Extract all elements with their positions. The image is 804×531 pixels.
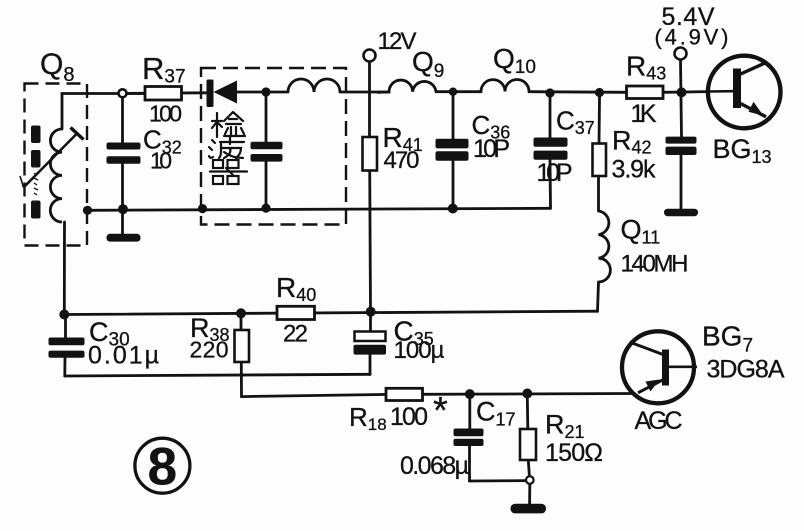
Q8 ferrite core bars bbox=[31, 126, 41, 219]
wire detector cap branch x=266 bbox=[265, 97, 268, 142]
wire R38 leads bbox=[240, 317, 243, 330]
transistor BG7 bbox=[622, 331, 697, 403]
node C30 top bbox=[59, 310, 69, 320]
node C35 top bbox=[366, 307, 376, 317]
ground under C32 bbox=[107, 234, 141, 242]
node gnd-bus dots bbox=[83, 206, 92, 215]
diode (detector) bbox=[207, 80, 238, 108]
capacitor at BG13 base bbox=[666, 137, 697, 155]
svg-text:*: * bbox=[433, 390, 448, 432]
node R38 top bbox=[236, 308, 246, 318]
resistor R40 bbox=[277, 306, 315, 319]
node C37 top bbox=[545, 88, 554, 97]
wire R18/AGC line y=394 bbox=[242, 394, 388, 396]
wire AGC bus y=313 bbox=[64, 311, 597, 314]
wire ground bus y=208.5 bbox=[88, 208, 551, 210]
svg-text:10P: 10P bbox=[537, 159, 573, 187]
svg-text:(4.9V): (4.9V) bbox=[655, 25, 729, 50]
node 5.4V junction bbox=[677, 87, 687, 97]
label 波 (hand-drawn) bbox=[209, 137, 244, 158]
transistor BG13 bbox=[708, 56, 781, 129]
svg-text:22: 22 bbox=[283, 321, 308, 348]
wire C37 branch x=550 bbox=[549, 98, 552, 138]
svg-text:12V: 12V bbox=[378, 28, 417, 55]
capacitor C36 bbox=[436, 139, 469, 161]
wire C36 branch x=453 bbox=[452, 96, 455, 139]
coil Q10 bbox=[481, 80, 529, 92]
Q8 core fine marks bbox=[34, 173, 38, 195]
wire C17 leads bbox=[468, 397, 471, 429]
wire top bus y=92.5 from Q8 to BG13 bbox=[62, 94, 145, 130]
svg-text:150Ω: 150Ω bbox=[545, 439, 603, 467]
wire C30 cap leads bbox=[64, 318, 67, 338]
node A ring (C32 top) bbox=[119, 89, 127, 97]
svg-text:100µ: 100µ bbox=[394, 337, 445, 364]
figure number circle 8 bbox=[135, 438, 190, 493]
capacitor detector filter bbox=[251, 142, 283, 162]
svg-text:140MH: 140MH bbox=[621, 251, 689, 278]
svg-text:0.068µ: 0.068µ bbox=[400, 452, 469, 480]
node R21 bottom ring bbox=[526, 476, 534, 484]
resistor R43 bbox=[627, 86, 664, 99]
node C17 top bbox=[465, 389, 475, 399]
ground under BG13 capacitor bbox=[664, 209, 698, 217]
capacitor C17 bbox=[454, 429, 484, 447]
coil Q11 bbox=[599, 211, 611, 282]
terminal 12V bbox=[364, 50, 376, 62]
svg-text:10: 10 bbox=[150, 148, 172, 174]
svg-text:470: 470 bbox=[384, 147, 420, 174]
wire R21 leads bbox=[526, 397, 529, 429]
Q8 tuning arrow bbox=[20, 128, 84, 188]
svg-text:1K: 1K bbox=[631, 100, 657, 128]
svg-text:100: 100 bbox=[149, 101, 182, 127]
capacitor C30 bbox=[49, 338, 85, 358]
resistor R41 bbox=[363, 137, 378, 171]
resistor R21 bbox=[520, 429, 536, 460]
svg-text:0.01µ: 0.01µ bbox=[88, 342, 159, 370]
wire 12V rail vertical x=369.5 bbox=[368, 62, 371, 139]
wire 5.4V drop x=681 bbox=[681, 60, 682, 137]
node R21 top bbox=[522, 389, 532, 399]
coil detector inductor bbox=[288, 79, 340, 92]
wire C32 branch x=122.5 bbox=[121, 97, 124, 142]
resistor R38 bbox=[235, 330, 250, 362]
resistor R18 bbox=[386, 388, 423, 400]
capacitor C35 electrolytic bbox=[355, 332, 386, 342]
node R42 top bbox=[595, 88, 604, 97]
node C36 top bbox=[449, 88, 457, 96]
svg-text:8: 8 bbox=[148, 438, 177, 497]
resistor R37 bbox=[145, 87, 182, 101]
svg-text:10P: 10P bbox=[473, 135, 510, 163]
resistor R42 bbox=[593, 144, 607, 177]
label 检 (hand-drawn) bbox=[212, 112, 245, 137]
capacitor C37 bbox=[534, 138, 568, 160]
ground under R21 bbox=[511, 504, 547, 514]
wire C35 leads bbox=[369, 315, 372, 332]
svg-text:100: 100 bbox=[390, 403, 428, 431]
svg-text:3DG8A: 3DG8A bbox=[707, 356, 785, 384]
node detector junction bbox=[261, 87, 270, 96]
coil Q8 primary winding bbox=[50, 129, 62, 222]
label 器 (hand-drawn) bbox=[210, 160, 247, 184]
coil Q9 bbox=[377, 80, 436, 92]
wire Q8 bottom lead to C30 node bbox=[63, 222, 66, 315]
wire R42/Q11 branch x=599 bbox=[598, 97, 601, 145]
wire bottom line3 y=375.5 bbox=[65, 374, 370, 376]
svg-text:AGC: AGC bbox=[635, 407, 683, 435]
wire line5 C17 to R21 bottom bbox=[470, 479, 527, 482]
svg-text:220: 220 bbox=[190, 337, 229, 363]
Q8 shield dashed box bbox=[25, 84, 88, 246]
capacitor C32 bbox=[107, 143, 141, 164]
terminal 5.4V bbox=[675, 48, 687, 60]
svg-text:3.9k: 3.9k bbox=[612, 156, 657, 184]
detector dashed box bbox=[201, 68, 346, 225]
